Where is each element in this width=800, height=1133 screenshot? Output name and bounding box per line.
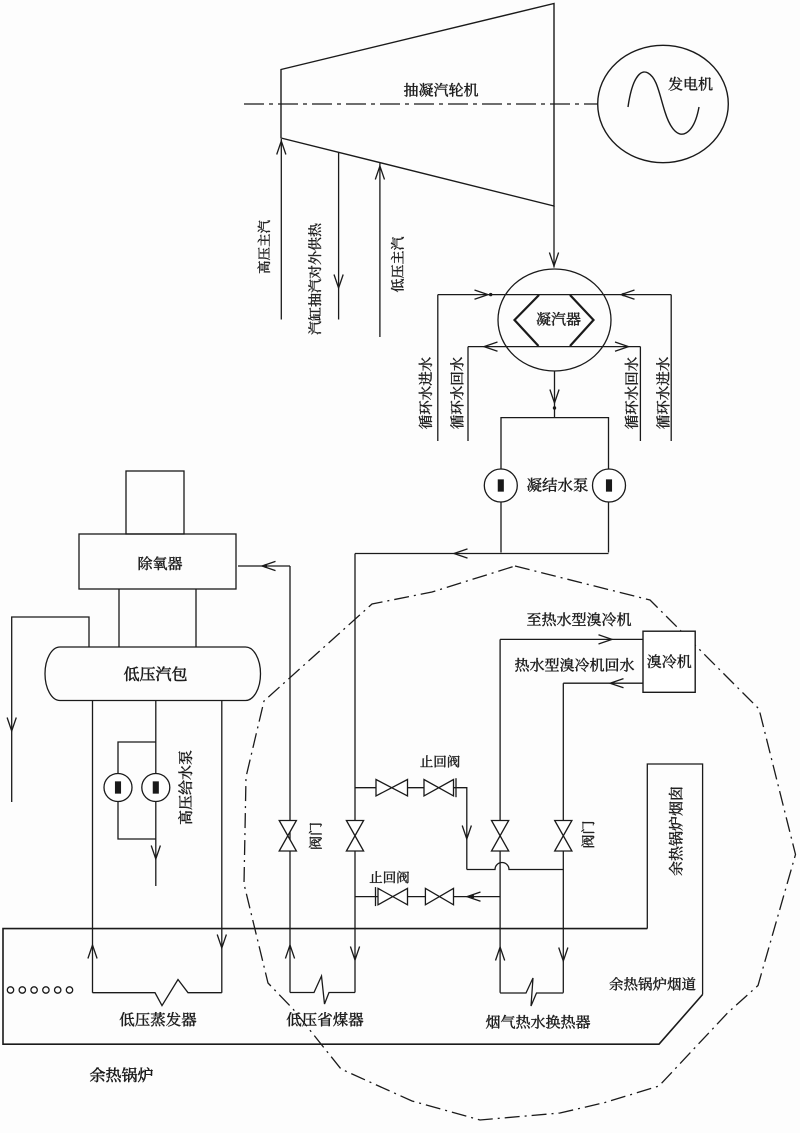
- label LP main steam: [391, 237, 404, 292]
- HP feed pump bypass loop: [118, 742, 156, 839]
- wire deaerator feed line: [238, 565, 290, 567]
- label check valves upper: [420, 755, 459, 767]
- flue gas heat exchanger 烟气热水换热器 coil: [500, 978, 563, 1006]
- wire condensate discharge header: [355, 553, 609, 555]
- label condenser: [537, 312, 581, 326]
- label chiller return: [515, 658, 634, 672]
- label flue duct: [610, 977, 696, 990]
- label LP drum: [124, 666, 187, 681]
- LP steam drum 低压汽包: [45, 647, 261, 701]
- wire HP main steam line 1: [280, 139, 282, 320]
- wire economizer outlet riser (to deaerator): [289, 566, 291, 929]
- label heat exchanger: [486, 1015, 590, 1029]
- flue duct boundary (dash-dot polygon) 余热锅炉烟道: [244, 566, 796, 1120]
- valve V2: [346, 821, 363, 852]
- label to chiller: [527, 612, 631, 626]
- bromine chiller 溴冷机 box: [643, 631, 695, 692]
- deaerator 除氧器 dome: [126, 471, 184, 534]
- LP economizer 低压省煤器 coil: [290, 976, 355, 1004]
- stack 余热锅炉烟囱 walls: [647, 764, 702, 995]
- wire drum steam vent line: [12, 617, 89, 802]
- check valve branch lower piping: [355, 896, 500, 898]
- condensate pump 1: [484, 469, 517, 502]
- deaerator 除氧器 tank: [79, 534, 236, 589]
- turbine-generator shaft centerline: [244, 103, 598, 105]
- check valve CV2 upper (with seat): [424, 780, 454, 796]
- valve V3: [492, 821, 509, 852]
- burner dots: [7, 987, 13, 993]
- wire condenser hotwell drain: [554, 371, 556, 418]
- wire drum downcomer right (to evaporator): [221, 701, 223, 993]
- label boiler: [90, 1067, 153, 1082]
- label deaerator: [139, 556, 182, 570]
- wire LP main steam line 3: [379, 163, 381, 337]
- condenser left chevron: [515, 295, 540, 346]
- label circ inlet right: [656, 357, 669, 429]
- check valve CV1 upper: [376, 780, 408, 796]
- check valve CV4 lower: [425, 888, 453, 904]
- label circ return right: [625, 357, 638, 429]
- wire HP feed pump suction: [155, 701, 157, 887]
- label turbine: [404, 83, 478, 97]
- HP feed pump 2: [142, 774, 170, 802]
- wire deaerator right downcomer: [195, 589, 197, 647]
- label extraction steam: [308, 224, 321, 335]
- label check valves lower: [370, 871, 409, 883]
- wire circ water inlet left riser: [437, 295, 439, 441]
- valve V1 阀门: [279, 821, 296, 852]
- label valve right: [581, 822, 594, 848]
- wire circ water inlet right riser: [670, 295, 672, 441]
- label HP feed pump: [178, 751, 192, 825]
- wire bromine chiller return line: [563, 682, 643, 684]
- condenser 凝汽器 circle: [498, 269, 611, 371]
- generator sine symbol: [628, 72, 699, 134]
- label circ inlet left: [419, 357, 432, 429]
- HP feed pump 1: [104, 774, 132, 802]
- wire heat exchanger outlet riser: [499, 639, 501, 992]
- wire circ water return right riser: [639, 347, 641, 441]
- wire circulating water upper header: [438, 294, 671, 296]
- wire drum downcomer left (evaporator riser): [92, 701, 94, 993]
- check valve CV3 lower (with seat): [378, 888, 408, 904]
- condenser right chevron: [570, 295, 594, 346]
- wire condensate downcomer (to economizer): [354, 554, 356, 993]
- label generator: [668, 77, 712, 91]
- check valve branch upper piping: [355, 788, 467, 870]
- valve V4 阀门: [555, 821, 572, 852]
- label HP main steam: [258, 220, 271, 273]
- label condensate pumps: [527, 478, 588, 492]
- condensate pump 2: [593, 469, 626, 502]
- label LP evaporator: [120, 1012, 197, 1026]
- label stack: [669, 787, 683, 875]
- wire hot water supply to bromine chiller: [500, 638, 643, 640]
- wire turbine exhaust to condenser: [553, 206, 555, 268]
- label chiller: [647, 654, 691, 668]
- label circ return left: [450, 357, 463, 429]
- LP evaporator 低压蒸发器 coil: [93, 980, 222, 1006]
- turbine 抽凝汽轮机 body: [281, 4, 554, 207]
- generator 发电机: [598, 45, 729, 162]
- condensate pump loop piping: [501, 418, 609, 553]
- wire extraction steam line 2: [338, 153, 340, 320]
- wire deaerator left downcomer: [118, 589, 120, 647]
- wire bridge crossing over riser: [467, 863, 564, 870]
- label LP economizer: [287, 1012, 364, 1026]
- label valve left: [309, 823, 322, 849]
- waste heat boiler 余热锅炉 casing: [3, 929, 703, 1045]
- wire circ water return left riser: [467, 347, 469, 441]
- wire return downcomer (to heat exchanger): [562, 683, 564, 993]
- wire circulating water lower header: [468, 346, 640, 348]
